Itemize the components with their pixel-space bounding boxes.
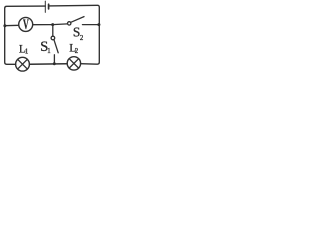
svg-text:V: V [23, 17, 29, 33]
svg-text:2: 2 [80, 35, 84, 42]
wire S1 branch lower vertical [53, 55, 55, 64]
switch S2 pivot circle [68, 22, 71, 25]
wire middle-right segment [83, 24, 100, 26]
wire S1 node to switch S2 [53, 23, 68, 26]
node right middle junction dot [97, 23, 100, 26]
battery cell short plate [48, 4, 50, 9]
voltmeter V1 circle [19, 17, 33, 31]
wire S1 branch upper vertical [52, 25, 54, 37]
switch S1 pivot circle [51, 36, 55, 40]
node middle rail / S1 branch junction dot [51, 23, 54, 26]
wire voltmeter to S1 node [33, 24, 53, 26]
battery cell long plate [44, 1, 46, 12]
lamp L2 cross [69, 59, 78, 68]
wire middle-left segment [5, 24, 19, 26]
wire between lamps [29, 63, 67, 66]
wire top-right + right vertical + bottom-right segment [49, 5, 100, 64]
node bottom rail / S1 branch junction dot [53, 62, 56, 65]
lamp L1 cross [18, 59, 28, 69]
switch S2 blade [71, 17, 84, 23]
switch S1 blade [54, 40, 58, 53]
svg-text:1: 1 [25, 49, 28, 56]
svg-text:2: 2 [75, 48, 79, 55]
wire top-left + left vertical + bottom-left segment [5, 6, 46, 64]
svg-text:1: 1 [47, 48, 50, 55]
node left middle junction dot [3, 24, 6, 27]
lamp L1 circle [16, 57, 30, 71]
lamp L2 circle [67, 57, 80, 70]
